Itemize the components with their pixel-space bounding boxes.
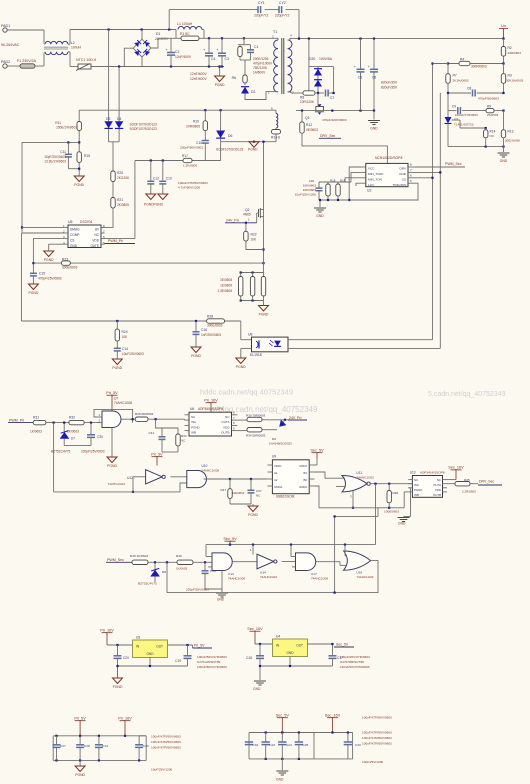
svg-text:30R/0603: 30R/0603 <box>508 51 522 55</box>
svg-text:100E/0603: 100E/0603 <box>384 510 399 514</box>
wire rail lower <box>21 233 23 321</box>
wire <box>244 37 278 39</box>
svg-text:C32: C32 <box>253 743 259 747</box>
svg-text:75E/1206: 75E/1206 <box>253 66 267 70</box>
vertical wire left <box>21 142 23 233</box>
capacitor C16 <box>195 321 197 332</box>
resistor R2 <box>503 39 505 47</box>
svg-text:C2: C2 <box>175 50 179 54</box>
svg-text:C13: C13 <box>166 177 172 181</box>
capacitor C18 <box>259 644 261 656</box>
svg-text:U7: U7 <box>114 397 118 401</box>
capacitor C4 <box>208 38 210 53</box>
wire opto to verticals <box>288 339 433 341</box>
ground GND <box>373 110 375 112</box>
svg-text:1K/0603: 1K/0603 <box>30 430 42 434</box>
ground PGND bank <box>79 760 81 766</box>
svg-text:R35: R35 <box>464 478 470 482</box>
svg-text:U11: U11 <box>356 471 362 475</box>
zener D7 <box>63 423 65 432</box>
wire U13 PGND <box>410 488 412 517</box>
svg-text:R11: R11 <box>55 121 61 125</box>
regulator U3 <box>133 640 168 658</box>
svg-text:SODF107/SOD123: SODF107/SOD123 <box>130 127 158 131</box>
capacitor C30 <box>90 423 92 435</box>
svg-text:10K: 10K <box>122 335 129 339</box>
svg-text:U6: U6 <box>190 407 194 411</box>
svg-text:Pri_16V: Pri_16V <box>118 717 132 721</box>
resistor R13 <box>503 111 505 130</box>
wire <box>255 643 273 645</box>
capacitor C31 <box>156 419 162 436</box>
svg-text:Pri_5V: Pri_5V <box>106 391 118 395</box>
svg-text:R2: R2 <box>508 46 512 50</box>
resistor network R25 R26 R27 <box>241 272 264 274</box>
svg-text:INA: INA <box>414 483 419 487</box>
svg-text:L2: L2 <box>71 41 75 45</box>
svg-text:OUTB: OUTB <box>221 431 229 435</box>
svg-text:100uF/X7R/50V/0603: 100uF/X7R/50V/0603 <box>362 736 392 740</box>
svg-text:OUTA: OUTA <box>221 420 229 424</box>
svg-text:Pri_5V: Pri_5V <box>74 717 86 721</box>
wire U7 out <box>122 418 136 420</box>
svg-text:B1: B1 <box>303 471 307 475</box>
capacitor C25 <box>298 733 300 742</box>
svg-text:150E/1%/0603: 150E/1%/0603 <box>56 126 77 130</box>
svg-text:100uF/25V/X7R/0603: 100uF/25V/X7R/0603 <box>340 655 370 659</box>
capacitor C33 <box>347 733 349 742</box>
svg-text:PGND: PGND <box>191 425 201 429</box>
svg-text:VDD: VDD <box>92 239 99 243</box>
svg-text:GATE: GATE <box>91 244 99 248</box>
wire U5 pin3 <box>33 239 64 273</box>
svg-text:D4: D4 <box>117 117 121 121</box>
svg-text:13.3E/1%/0603: 13.3E/1%/0603 <box>44 160 66 164</box>
capacitor CY1 <box>257 6 259 13</box>
svg-text:C18: C18 <box>246 656 252 660</box>
capacitor C30b <box>138 736 140 745</box>
svg-text:OUTA: OUTA <box>433 483 441 487</box>
svg-text:150uF/X7R/50V/0603: 150uF/X7R/50V/0603 <box>362 731 392 735</box>
rectifier D20 <box>308 39 310 67</box>
resistor R9 <box>486 108 494 112</box>
svg-text:ADP3414/SSOP8: ADP3414/SSOP8 <box>420 471 445 475</box>
svg-text:R10: R10 <box>193 120 199 124</box>
svg-text:A2: A2 <box>274 478 278 482</box>
pad PAD2 <box>3 64 7 68</box>
snubber C1 <box>250 45 252 50</box>
ground GND row3 <box>221 571 223 593</box>
diode D6 aux <box>220 110 222 131</box>
ground PGND <box>249 142 259 148</box>
svg-text:2A/400V: 2A/400V <box>155 37 169 41</box>
ground PGND <box>112 359 122 365</box>
resistor R6 <box>243 75 247 83</box>
svg-text:24V_Pri: 24V_Pri <box>289 416 302 420</box>
wire U11 gnd pin <box>352 491 354 508</box>
snubber R3 <box>243 38 245 44</box>
svg-text:CS: CS <box>402 178 406 182</box>
svg-text:C21: C21 <box>270 743 276 747</box>
resistor R17 <box>183 158 192 162</box>
transistor Q2 <box>263 142 265 273</box>
svg-text:Q2: Q2 <box>245 208 250 212</box>
resistor R18 <box>327 182 329 184</box>
inductor L1 <box>178 27 202 30</box>
svg-text:12nF/400V: 12nF/400V <box>175 55 192 59</box>
capacitor C38 <box>204 562 206 570</box>
capacitor C13 <box>162 161 164 182</box>
svg-text:PGND: PGND <box>74 183 84 187</box>
resistor R8 <box>303 91 315 95</box>
svg-text:C10: C10 <box>196 141 202 145</box>
wire <box>101 208 113 227</box>
wire <box>68 43 70 45</box>
svg-text:R18: R18 <box>330 179 336 183</box>
svg-text:470pF/25V/0603: 470pF/25V/0603 <box>38 277 62 281</box>
svg-text:R12: R12 <box>306 123 312 127</box>
svg-text:2K1%/0603: 2K1%/0603 <box>453 79 469 83</box>
wire <box>288 92 291 93</box>
svg-text:C27FL05/SOT89: C27FL05/SOT89 <box>197 660 221 664</box>
svg-text:R1 5C: R1 5C <box>180 32 190 36</box>
svg-text:hddc.cadn.net/qq 40752349: hddc.cadn.net/qq 40752349 <box>200 388 293 397</box>
wire node <box>221 141 276 143</box>
choke L2 <box>43 30 45 44</box>
svg-text:VDD1: VDD1 <box>274 464 282 468</box>
wire U14 out <box>233 561 258 563</box>
wire top rail <box>70 29 176 31</box>
wire <box>252 545 254 555</box>
capacitor C17 <box>332 644 334 656</box>
wire U17 out <box>316 561 337 563</box>
capacitor C21 <box>265 733 267 742</box>
wire <box>246 241 264 250</box>
optocoupler U8 <box>240 321 242 340</box>
svg-text:VCC: VCC <box>368 167 375 171</box>
svg-text:C1: C1 <box>254 45 258 49</box>
svg-text:C33: C33 <box>355 743 361 747</box>
svg-text:DRV: DRV <box>400 167 407 171</box>
svg-text:10K/0603: 10K/0603 <box>303 184 317 188</box>
wire feedback riser <box>377 508 379 517</box>
ground PGND <box>158 194 168 200</box>
svg-text:TL431/SOT23: TL431/SOT23 <box>454 123 474 127</box>
wire pin5 loop <box>349 167 418 200</box>
resistor R23 <box>62 261 71 265</box>
resistor R37 <box>229 479 231 489</box>
svg-text:R4: R4 <box>460 58 464 62</box>
capacitor C37 <box>250 479 252 490</box>
diode D3 <box>104 121 112 128</box>
svg-text:B2: B2 <box>303 478 307 482</box>
svg-text:INB: INB <box>414 493 419 497</box>
resistor R11 <box>78 110 80 121</box>
svg-text:100V/5A: 100V/5A <box>319 57 333 61</box>
wire U12 out <box>170 476 186 478</box>
port DRV_Sec out <box>470 483 478 485</box>
ground PGND reg <box>117 666 119 678</box>
wire <box>447 124 449 147</box>
svg-text:Sec_5V: Sec_5V <box>310 449 324 453</box>
aux winding <box>275 110 277 113</box>
svg-text:2K/0805: 2K/0805 <box>117 203 129 207</box>
svg-text:GNDA: GNDA <box>274 485 282 489</box>
svg-text:GND: GND <box>70 244 78 248</box>
capacitor C19 <box>187 645 189 656</box>
wire <box>375 484 377 545</box>
svg-text:MIN_TON: MIN_TON <box>368 178 382 182</box>
svg-text:VDD2: VDD2 <box>299 464 307 468</box>
svg-text:GND: GND <box>276 778 284 782</box>
svg-text:C6: C6 <box>372 76 376 80</box>
ground GND <box>503 147 505 152</box>
svg-text:2K/0603: 2K/0603 <box>487 113 499 117</box>
capacitor C12 <box>150 161 152 182</box>
IC U13 ADP3414 <box>412 476 442 498</box>
IC U6 ADP3654 <box>189 412 232 436</box>
svg-text:D6: D6 <box>228 134 232 138</box>
svg-text:100nF/X7R/50V/0603: 100nF/X7R/50V/0603 <box>151 746 181 750</box>
capacitor C9 row <box>447 93 449 111</box>
wire aux rail <box>79 109 276 111</box>
svg-text:R20: R20 <box>117 171 123 175</box>
svg-text:R17: R17 <box>182 154 188 158</box>
wire CY loop <box>168 10 170 30</box>
IC U2 NCN1002D <box>366 163 408 186</box>
wire <box>282 561 296 563</box>
svg-text:C31: C31 <box>103 744 109 748</box>
wire bank2b rails <box>314 732 353 734</box>
svg-text:10uF/25V/1206: 10uF/25V/1206 <box>151 768 172 772</box>
svg-text:Pri_16V: Pri_16V <box>100 629 114 633</box>
wire <box>148 418 185 420</box>
wire <box>168 644 193 646</box>
svg-text:R30 70R/0603: R30 70R/0603 <box>246 414 266 418</box>
svg-text:R15: R15 <box>84 154 90 158</box>
svg-text:R34 50R/0603: R34 50R/0603 <box>246 434 266 438</box>
capacitor C28 <box>79 736 81 745</box>
svg-text:PWM_Pri: PWM_Pri <box>108 239 123 243</box>
svg-text:C30: C30 <box>143 744 149 748</box>
svg-text:C18: C18 <box>309 179 315 183</box>
wire bank2 rails <box>249 732 314 734</box>
svg-text:2.2R/0603: 2.2R/0603 <box>462 490 476 494</box>
svg-text:R33: R33 <box>181 434 187 438</box>
svg-text:1.2K/0805: 1.2K/0805 <box>183 164 197 168</box>
wire ref <box>452 119 461 121</box>
svg-text:OUTB: OUTB <box>433 493 441 497</box>
wire pin7 <box>413 171 441 173</box>
svg-text:Pri_5V: Pri_5V <box>194 644 205 648</box>
svg-text:OUT: OUT <box>296 644 303 648</box>
wire <box>180 483 187 492</box>
svg-text:R21: R21 <box>117 198 123 202</box>
svg-text:PGND: PGND <box>259 313 269 317</box>
svg-text:100nF/X7R/50V/0603: 100nF/X7R/50V/0603 <box>362 716 392 720</box>
wire <box>288 347 440 349</box>
svg-text:C30: C30 <box>97 435 103 439</box>
svg-text:1.3E/0805: 1.3E/0805 <box>217 289 232 293</box>
resistor R38 <box>388 484 390 491</box>
svg-text:U4: U4 <box>276 635 280 639</box>
resistor R29 <box>135 417 148 421</box>
svg-text:12nF/400V: 12nF/400V <box>190 77 207 81</box>
svg-text:R13: R13 <box>508 130 514 134</box>
svg-text:R39 1K/0603: R39 1K/0603 <box>130 554 148 558</box>
resistor R10 <box>204 110 206 121</box>
resistor R34 <box>237 430 247 432</box>
svg-text:U15: U15 <box>356 571 362 575</box>
svg-text:INB: INB <box>191 431 196 435</box>
svg-text:C31: C31 <box>148 431 154 435</box>
ground GND reg <box>259 666 261 680</box>
wire row2 bottom <box>319 507 389 509</box>
svg-text:R8: R8 <box>300 96 304 100</box>
svg-text:F1 230V/2A: F1 230V/2A <box>17 59 37 63</box>
svg-text:Sec_5V: Sec_5V <box>336 643 349 647</box>
svg-text:U12: U12 <box>127 476 133 480</box>
ground GND bank <box>281 759 283 770</box>
wire <box>107 644 133 646</box>
wire <box>151 38 171 48</box>
capacitor C14 <box>116 341 118 348</box>
svg-text:10uF/25V/1206: 10uF/25V/1206 <box>362 760 383 764</box>
svg-text:VDD: VDD <box>435 488 441 492</box>
svg-text:10K/0603: 10K/0603 <box>303 188 317 192</box>
svg-text:T1: T1 <box>273 30 277 34</box>
svg-text:GND: GND <box>217 598 225 602</box>
svg-text:100uH: 100uH <box>71 46 82 50</box>
svg-text:12nF/400V: 12nF/400V <box>190 72 207 76</box>
wire U5 pin2 <box>22 232 65 234</box>
svg-text:GND: GND <box>398 522 406 526</box>
svg-text:U8: U8 <box>248 333 253 337</box>
fuse F1 <box>20 64 35 68</box>
svg-text:U13: U13 <box>410 471 416 475</box>
svg-text:74AHC1G08: 74AHC1G08 <box>202 469 220 473</box>
ground GND <box>319 200 321 207</box>
wire <box>78 131 80 152</box>
resistor R21 <box>111 198 115 209</box>
svg-text:R23: R23 <box>62 258 68 262</box>
ground PGND <box>74 176 84 182</box>
svg-text:U2: U2 <box>367 189 371 193</box>
svg-text:GND: GND <box>146 652 154 656</box>
svg-text:C7: C7 <box>330 96 334 100</box>
gate U17 <box>296 553 316 571</box>
svg-text:R29 0R/0603: R29 0R/0603 <box>135 412 154 416</box>
svg-text:PGND: PGND <box>44 258 54 262</box>
svg-text:74AHC1G08: 74AHC1G08 <box>311 577 328 581</box>
wire <box>78 162 80 176</box>
wire U13 INB <box>404 491 408 493</box>
resistor R3 <box>503 64 505 74</box>
svg-text:4.7uF/50V/1206: 4.7uF/50V/1206 <box>178 186 200 190</box>
wire <box>308 643 333 645</box>
capacitor C3 <box>221 38 223 53</box>
svg-text:GND: GND <box>399 172 407 176</box>
svg-text:820uF/35V: 820uF/35V <box>381 81 398 85</box>
svg-text:C37: C37 <box>256 489 262 493</box>
svg-text:R19: R19 <box>340 179 346 183</box>
resistor R40 <box>177 560 193 564</box>
svg-text:INA: INA <box>191 420 196 424</box>
svg-text:U34: U34 <box>260 571 266 575</box>
svg-text:100nF/X7R/50V/0603: 100nF/X7R/50V/0603 <box>151 740 181 744</box>
wire feedback U7 <box>94 409 133 422</box>
regulator U4 <box>273 639 308 657</box>
svg-text:C12: C12 <box>153 177 159 181</box>
svg-text:C19: C19 <box>175 659 181 663</box>
svg-text:1N4148/SOD323: 1N4148/SOD323 <box>269 442 292 446</box>
svg-text:DMAG: DMAG <box>70 228 80 232</box>
svg-text:110nF/50V/X7R/0603: 110nF/50V/X7R/0603 <box>340 665 370 669</box>
ground PGND <box>146 194 156 200</box>
svg-text:74AHC1G04: 74AHC1G04 <box>260 575 277 579</box>
svg-text:NTC1 10D-9: NTC1 10D-9 <box>76 58 96 62</box>
resistor R35 <box>447 483 455 485</box>
svg-text:220pF/50V/0603: 220pF/50V/0603 <box>180 146 203 150</box>
svg-text:470pF/100V/0603: 470pF/100V/0603 <box>322 118 347 122</box>
svg-text:220pF/Y2: 220pF/Y2 <box>254 14 268 18</box>
diode D2 <box>244 83 246 85</box>
svg-text:C3: C3 <box>225 57 229 61</box>
svg-text:1K/0603: 1K/0603 <box>176 567 188 571</box>
capacitor C24 <box>281 733 283 742</box>
svg-text:D2: D2 <box>251 90 255 94</box>
svg-text:GND: GND <box>316 214 324 218</box>
wire long row <box>54 491 180 493</box>
svg-text:DS3704: DS3704 <box>80 220 92 224</box>
wire gnd rail <box>149 658 151 667</box>
svg-text:VDD: VDD <box>223 425 230 429</box>
svg-text:U5: U5 <box>136 636 140 640</box>
svg-text:Pri_5V: Pri_5V <box>151 453 163 457</box>
svg-text:20R/0805: 20R/0805 <box>186 125 200 129</box>
svg-text:74AHC1G04: 74AHC1G04 <box>107 482 125 486</box>
capacitor C6 <box>373 39 375 69</box>
ground PGND <box>263 301 265 306</box>
wire <box>319 199 349 201</box>
capacitor C31b <box>98 736 100 745</box>
svg-text:C9: C9 <box>452 105 456 109</box>
capacitor C2 <box>170 38 172 52</box>
ground PGND <box>219 67 221 77</box>
svg-text:R37: R37 <box>220 488 226 492</box>
svg-text:PWM_Pri: PWM_Pri <box>9 418 24 422</box>
svg-text:SI8622/SOI8: SI8622/SOI8 <box>276 495 294 499</box>
svg-text:D20: D20 <box>309 57 315 61</box>
wire <box>112 182 114 198</box>
svg-text:1E/0805: 1E/0805 <box>220 278 232 282</box>
wire <box>245 92 270 100</box>
thermistor NTC1 <box>70 66 78 68</box>
wire gnd rail secondary <box>296 110 374 112</box>
resistor R15 <box>77 152 81 163</box>
svg-text:Sec_16V: Sec_16V <box>325 714 341 718</box>
wire DRV_Sec route <box>302 133 387 163</box>
svg-text:PWM_Sec: PWM_Sec <box>445 162 462 166</box>
svg-text:220pF/25V/0603: 220pF/25V/0603 <box>81 450 105 454</box>
svg-text:1K/0603: 1K/0603 <box>67 430 79 434</box>
svg-text:30K1%/0603: 30K1%/0603 <box>506 79 524 83</box>
svg-text:PGNDPGND: PGNDPGND <box>144 203 164 207</box>
resistor R12 <box>301 111 303 122</box>
IC U5 DS3704 <box>68 225 101 248</box>
svg-text:Sec_5V: Sec_5V <box>223 537 237 541</box>
svg-text:Sec_16V: Sec_16V <box>448 466 464 470</box>
